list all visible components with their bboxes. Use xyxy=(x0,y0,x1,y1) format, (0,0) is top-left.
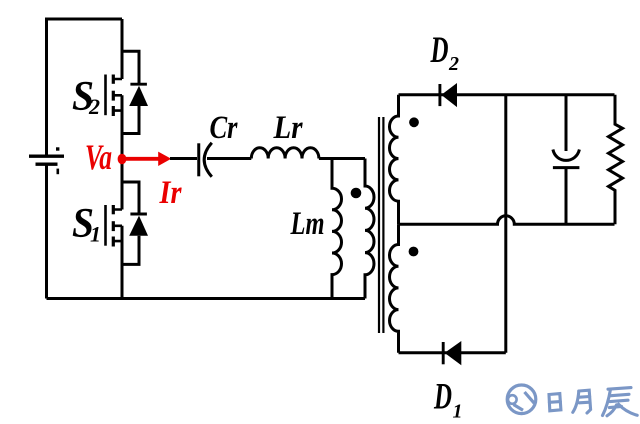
wire half-bridge leg upper xyxy=(121,19,124,79)
svg-text:D: D xyxy=(430,30,449,71)
resistor RL xyxy=(609,95,623,224)
wire Cr to Lr xyxy=(207,157,251,160)
body diode of S1 xyxy=(122,182,148,264)
capacitor Co xyxy=(553,95,580,224)
transformer secondary top winding xyxy=(389,95,398,224)
logo text CHEN (star) xyxy=(603,388,638,416)
svg-text:1: 1 xyxy=(453,401,463,423)
secondary bottom polarity dot xyxy=(409,247,419,257)
svg-text:Lr: Lr xyxy=(273,110,304,146)
label S1 xyxy=(72,201,101,247)
transformer primary winding xyxy=(365,159,374,299)
label D2 xyxy=(430,30,459,75)
diode D1 xyxy=(443,341,461,365)
primary polarity dot xyxy=(351,188,362,199)
wire S2 source to S1 drain xyxy=(121,95,124,209)
body diode of S2 xyxy=(122,51,148,133)
logo icon xyxy=(507,385,536,414)
wire output center rail with hop xyxy=(399,216,615,224)
wire left rail top and top rail xyxy=(47,19,123,155)
inductor Lr xyxy=(251,148,319,159)
wire output top rail xyxy=(399,93,615,96)
label D1 xyxy=(433,377,462,423)
transistor S2 xyxy=(106,75,123,117)
logo text YUE (moon) xyxy=(573,390,591,413)
node Va xyxy=(118,154,127,165)
wire rectifier junction vertical xyxy=(504,95,507,353)
svg-text:2: 2 xyxy=(448,53,459,75)
wire Lr to primary xyxy=(319,157,365,160)
secondary top polarity dot xyxy=(409,117,419,127)
diode D2 xyxy=(440,83,457,107)
svg-text:D: D xyxy=(433,377,452,418)
wire S1 source to bottom rail xyxy=(121,226,124,299)
svg-text:1: 1 xyxy=(90,222,101,247)
capacitor Cr xyxy=(199,143,212,177)
battery Vin xyxy=(29,147,64,174)
svg-text:Ir: Ir xyxy=(159,175,183,211)
svg-text:Va: Va xyxy=(85,137,112,177)
wire arrow to Cr xyxy=(170,157,197,160)
inductor Lm xyxy=(332,159,342,299)
wire bottom rail xyxy=(47,297,366,300)
transformer core xyxy=(379,117,383,333)
current arrow Ir xyxy=(124,152,171,166)
transformer secondary bottom winding xyxy=(390,224,399,353)
label S2 xyxy=(72,74,100,120)
wire output bottom rail xyxy=(399,351,506,354)
logo text RI (sun) xyxy=(549,394,561,411)
svg-text:2: 2 xyxy=(88,94,100,119)
svg-text:Lm: Lm xyxy=(290,206,325,242)
wire left rail bottom xyxy=(45,166,48,299)
transistor S1 xyxy=(106,205,123,247)
svg-text:Cr: Cr xyxy=(210,110,239,146)
